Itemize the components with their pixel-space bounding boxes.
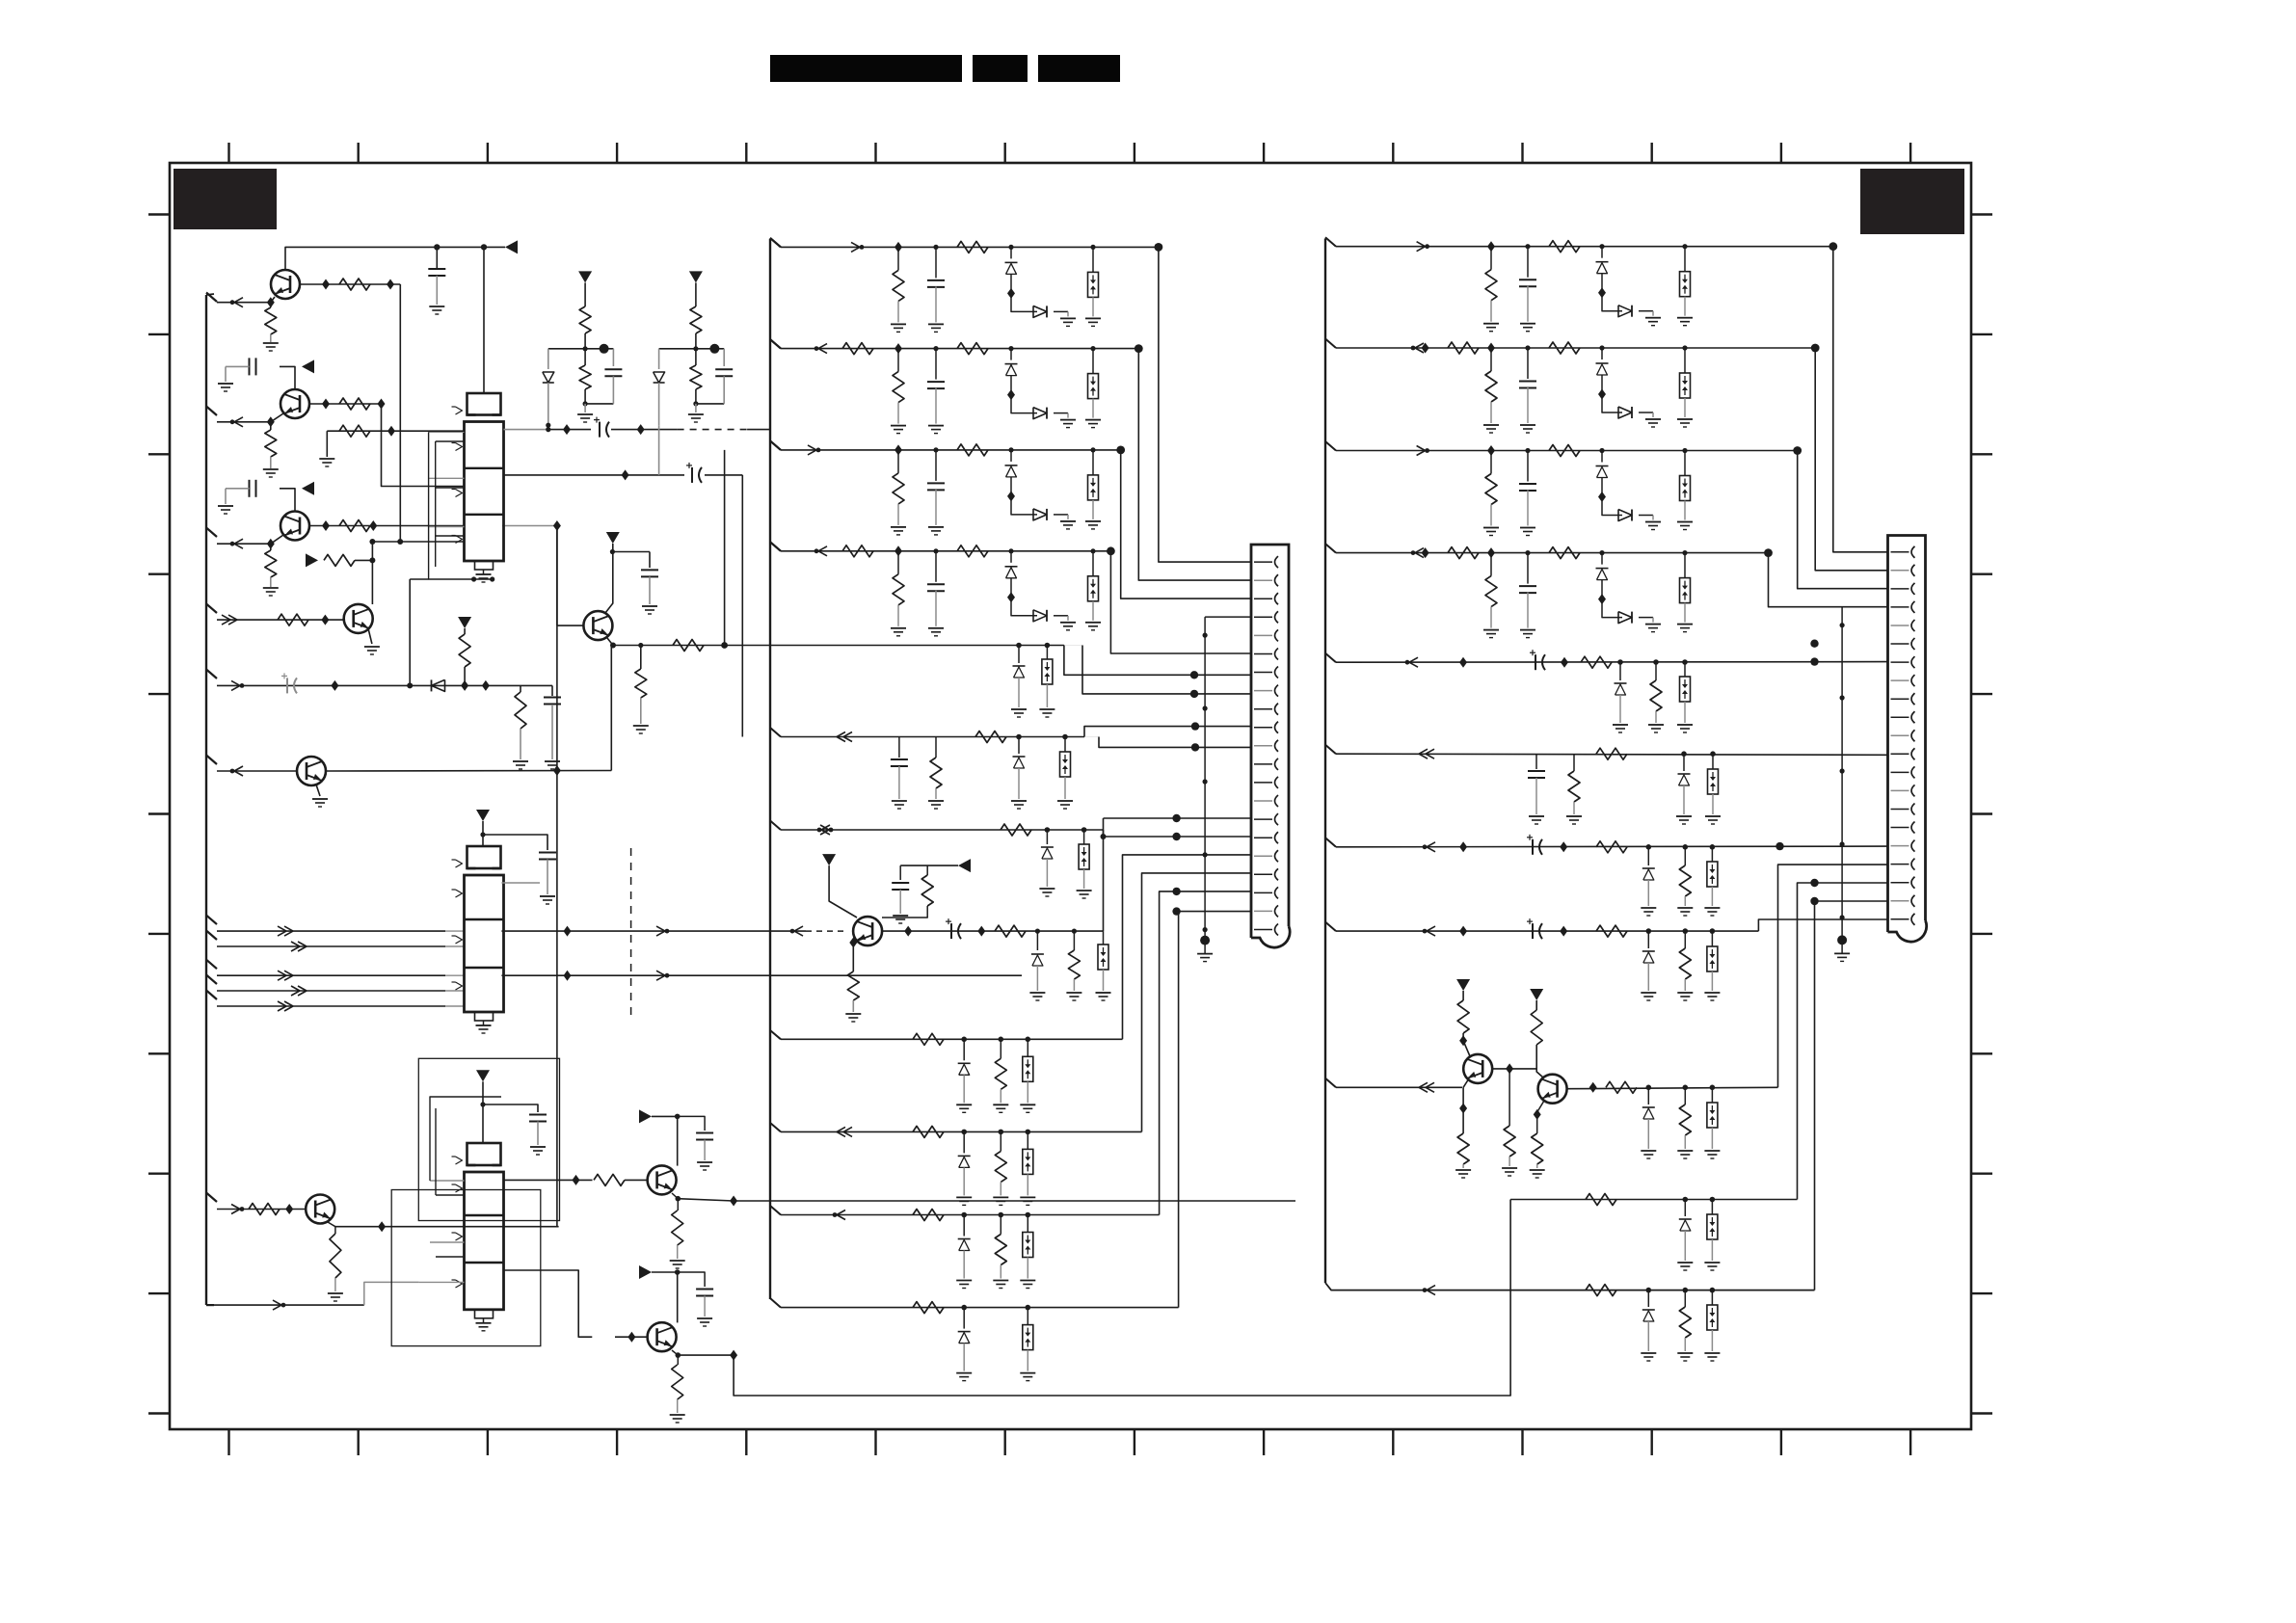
resistor Rm1b bbox=[957, 241, 988, 253]
connector X2 internal ground bus bbox=[1841, 607, 1843, 941]
wire right row 4 drop to connector bbox=[1769, 553, 1888, 607]
title redaction bar 2 bbox=[973, 55, 1028, 82]
wire Q5 output row bbox=[882, 930, 1104, 932]
resistor RA1 bbox=[579, 306, 591, 333]
wire r6 cap leg bbox=[1535, 754, 1537, 769]
wire Q9 emitter resistor bbox=[677, 1355, 679, 1365]
diode Dr5 bbox=[1615, 682, 1627, 684]
resistor Rr7 bbox=[1596, 841, 1627, 853]
wire m11 zener leg bbox=[963, 1308, 965, 1329]
resistor RB2 bbox=[690, 365, 702, 389]
pin 19 bbox=[1891, 882, 1909, 884]
wire right row 8 bbox=[1325, 922, 1336, 932]
diode Dm3a bbox=[1005, 465, 1018, 466]
wire r6 zener leg bbox=[1683, 754, 1685, 771]
wire Q2 base input bbox=[206, 407, 217, 416]
wire cluster A diode leg bbox=[547, 349, 549, 369]
wire IC3 out to Q9 bbox=[504, 1270, 593, 1337]
wire top bias arm bbox=[900, 865, 958, 866]
ground C12 gnd bbox=[530, 1146, 546, 1148]
pin 18 bbox=[1891, 864, 1909, 865]
connector X1 bbox=[1251, 545, 1289, 938]
wire r3 res leg bbox=[1490, 451, 1492, 474]
wire r8 fuse leg bbox=[1711, 931, 1713, 946]
corner label box top-left bbox=[174, 169, 277, 229]
transistor Q9 bbox=[648, 1322, 677, 1351]
wire Q12 output row bbox=[326, 770, 611, 773]
ground m2 gnd4 bbox=[1085, 419, 1101, 421]
protector Fr1 bbox=[1680, 272, 1691, 297]
transistor Q7 bbox=[1538, 1075, 1567, 1104]
power V9 bbox=[639, 1265, 652, 1279]
resistor Rr7b bbox=[1679, 865, 1691, 896]
wire r9 zener leg bbox=[1647, 1087, 1649, 1104]
wire right row 3 bbox=[1325, 441, 1336, 451]
power arrow bbox=[958, 859, 971, 872]
connector X1 internal ground bus bbox=[1204, 617, 1206, 941]
wire V2 cap branch bbox=[612, 551, 650, 553]
wire Q12 emitter ground bbox=[316, 785, 320, 796]
wire resistor leg ground bbox=[326, 431, 328, 457]
IC U2 pin marker bbox=[456, 890, 463, 897]
wire Q2 output drop to IC bbox=[382, 404, 465, 487]
right distribution bus bbox=[1324, 239, 1326, 1284]
ground IC U3 bbox=[476, 1322, 492, 1324]
ground m4 gnd2 bbox=[928, 627, 944, 629]
ground D2 gnd bbox=[1029, 992, 1045, 994]
wire R20 to base bbox=[625, 1179, 648, 1181]
IC U1 body bbox=[465, 422, 504, 562]
wire r3 diode arm bbox=[1602, 497, 1622, 516]
transistor Q2 bbox=[280, 389, 309, 418]
resistor Rr4a bbox=[1485, 576, 1497, 607]
wire r1 diode arm bbox=[1602, 293, 1622, 311]
wire dashed service line bbox=[630, 848, 632, 1020]
diode Dm8 bbox=[958, 1062, 971, 1064]
wire row5 tail bbox=[1019, 645, 1064, 647]
capacitor Cr3 bbox=[1519, 483, 1536, 485]
pin 14 bbox=[1254, 800, 1272, 802]
wire node to Q11 collector bbox=[371, 560, 373, 604]
IC U1 pin marker bbox=[456, 443, 463, 451]
power V3 bbox=[476, 810, 490, 821]
wire Q8 emitter resistor bbox=[334, 1227, 336, 1234]
resistor Rr2 bbox=[1448, 342, 1479, 354]
ground R10 gnd bbox=[513, 760, 528, 762]
ground r10 gnd1 bbox=[1677, 1262, 1693, 1264]
wire cluster B supply bbox=[695, 282, 697, 306]
wire m10 res leg bbox=[1000, 1215, 1001, 1235]
wire cluster A tap to row bbox=[546, 423, 550, 428]
wire Q5 base leg bbox=[853, 938, 861, 943]
IC U1 top section bbox=[467, 393, 501, 415]
wire middle row 3 drop to connector bbox=[1121, 450, 1251, 599]
corner label box top-right bbox=[1860, 169, 1964, 234]
wire row6 cap leg bbox=[898, 737, 900, 758]
resistor Rq6e bbox=[1457, 1133, 1469, 1164]
ground R1 gnd bbox=[263, 342, 279, 344]
wire cluster B bottom tie bbox=[696, 403, 724, 405]
wire IC1 supply drop bbox=[483, 247, 485, 393]
wire r2 fuse leg bbox=[1684, 348, 1686, 373]
wire m11 bbox=[781, 1307, 1179, 1309]
wire m10 fuse leg bbox=[1027, 1215, 1028, 1233]
wire Q10 output run bbox=[734, 1200, 1295, 1202]
ground m9 gnd3 bbox=[1020, 1196, 1035, 1198]
protector Fm10 bbox=[1023, 1233, 1033, 1258]
resistor Rm8 bbox=[913, 1033, 944, 1045]
pin 19 bbox=[1254, 891, 1272, 893]
diode Dm10 bbox=[958, 1238, 971, 1240]
wire m4 diode arm bbox=[1011, 598, 1037, 616]
capacitor C8 bbox=[641, 569, 658, 571]
ground R17 gnd bbox=[1066, 992, 1081, 994]
IC U2 pin marker bbox=[456, 860, 463, 867]
capacitor Cr7 (polarized) bbox=[1532, 839, 1534, 855]
IC U3 pin marker bbox=[456, 1280, 463, 1288]
wire r5 res leg bbox=[1655, 662, 1657, 680]
wire row tail bbox=[465, 684, 521, 686]
ground m2 gnd3 bbox=[1060, 419, 1076, 421]
wire m4 cap leg bbox=[935, 551, 937, 582]
wire Q2 output bbox=[309, 403, 382, 405]
wire r5 zener leg bbox=[1619, 662, 1621, 680]
transistor Q3 bbox=[280, 512, 309, 541]
resistor R8 bbox=[278, 614, 308, 625]
wire r6 fuse leg bbox=[1712, 754, 1714, 769]
resistor Rm9b bbox=[995, 1151, 1006, 1182]
wire middle row 1 bbox=[770, 238, 781, 248]
ground m1 gnd1 bbox=[891, 323, 906, 325]
ground m8 gnd1 bbox=[956, 1104, 972, 1105]
resistor Rm2a bbox=[893, 372, 904, 403]
wire m8 riser bbox=[1123, 855, 1252, 1039]
ground r1 gnd1 bbox=[1483, 323, 1499, 325]
wire m1 cap leg bbox=[935, 247, 937, 278]
ground Q12 gnd bbox=[312, 798, 328, 800]
wire r4 fuse leg bbox=[1684, 553, 1686, 578]
transistor Q5 bbox=[853, 917, 882, 945]
ground r2 gnd4 bbox=[1677, 418, 1693, 420]
ground r5 gnd2 bbox=[1648, 724, 1664, 726]
resistor Rr4b bbox=[1549, 547, 1580, 559]
wire IC1 row from resistor bbox=[327, 430, 464, 432]
IC U2 bottom stub bbox=[475, 1012, 494, 1021]
wire Q1 output drop bbox=[399, 284, 401, 542]
diode Dm2b bbox=[1033, 408, 1047, 419]
IC U2 body bbox=[465, 875, 504, 1012]
diode Dm4a bbox=[1005, 566, 1018, 568]
ground r5 gnd1 bbox=[1613, 724, 1628, 726]
protector Fr8 bbox=[1707, 946, 1718, 971]
ground r11 gnd3 bbox=[1704, 1352, 1720, 1354]
ground m4 gnd3 bbox=[1060, 622, 1076, 624]
capacitor C9 bbox=[539, 852, 556, 854]
wire IC2 supply bbox=[482, 821, 484, 846]
capacitor Cm3 bbox=[927, 482, 945, 484]
ground C5 gnd bbox=[545, 760, 560, 762]
resistor Rr5 bbox=[1581, 656, 1612, 668]
pin 15 bbox=[1891, 809, 1909, 811]
diode Dr2a bbox=[1596, 362, 1609, 364]
transistor Q8 bbox=[306, 1195, 334, 1224]
wire m9 fuse leg bbox=[1027, 1131, 1028, 1149]
protector Fr3 bbox=[1680, 476, 1691, 501]
ground r11 gnd2 bbox=[1677, 1352, 1693, 1354]
wire m1 diode arm bbox=[1011, 293, 1037, 311]
ground r4 gnd4 bbox=[1677, 624, 1693, 625]
wire cluster A cap leg bbox=[612, 349, 614, 366]
pin 13 bbox=[1891, 771, 1909, 773]
resistor Rr1a bbox=[1485, 270, 1497, 301]
diode Dr4a bbox=[1596, 568, 1609, 570]
ground F1 gnd bbox=[1096, 992, 1111, 994]
resistor Rlink bbox=[1504, 1126, 1515, 1157]
wire row B drop bbox=[741, 475, 743, 737]
power V8 bbox=[639, 1109, 652, 1123]
resistor Rm8b bbox=[995, 1058, 1006, 1089]
ground C10 gnd bbox=[893, 915, 908, 917]
ground r9 gnd3 bbox=[1704, 1150, 1720, 1152]
capacitor C11 (polarized) bbox=[950, 923, 952, 939]
ground m11 gnd1 bbox=[956, 1372, 972, 1374]
ground m3 gnd2 bbox=[928, 526, 944, 528]
wire m2 zener leg bbox=[1010, 349, 1012, 360]
ground m1 gnd2 bbox=[928, 323, 944, 325]
power arrow bbox=[505, 240, 518, 253]
diode Dr11 bbox=[1642, 1309, 1655, 1311]
wire right row 1 drop to connector bbox=[1833, 247, 1888, 552]
capacitor CA bbox=[604, 368, 622, 370]
ground r5 gnd3 bbox=[1677, 724, 1693, 726]
ground m7 gnd1 bbox=[1039, 888, 1055, 890]
ground r7 gnd3 bbox=[1704, 907, 1720, 909]
pin 2 bbox=[1254, 579, 1272, 581]
ground m8 gnd2 bbox=[993, 1104, 1008, 1105]
IC U1 pin marker bbox=[456, 407, 463, 414]
wire right row 4 bbox=[1325, 544, 1336, 553]
wire IC1 output row B bbox=[504, 474, 626, 476]
wire RC to ground bbox=[520, 685, 521, 692]
resistor Rm3a bbox=[893, 473, 904, 504]
ground Q7 gnd bbox=[1530, 1169, 1545, 1171]
wire cap to ground bbox=[436, 276, 438, 305]
wire r11 zener leg bbox=[1647, 1290, 1649, 1307]
wire right row 2 drop to connector bbox=[1815, 348, 1887, 571]
wire cluster B rail bbox=[659, 348, 725, 350]
diode Dm11 bbox=[958, 1331, 971, 1333]
pin 6 bbox=[1891, 643, 1909, 645]
wire r1 fuse leg bbox=[1684, 247, 1686, 272]
power VA bbox=[578, 271, 592, 282]
wire r5 fuse leg bbox=[1684, 662, 1686, 677]
ground r8 gnd3 bbox=[1704, 992, 1720, 994]
diode Dm5a bbox=[1013, 665, 1026, 667]
pin 9 bbox=[1891, 698, 1909, 700]
transistor Q11 bbox=[344, 604, 373, 633]
ground r11 gnd1 bbox=[1641, 1352, 1656, 1354]
protector Fm7 bbox=[1079, 844, 1089, 869]
capacitor C1 bbox=[428, 268, 445, 270]
wire Q3 collector node bbox=[280, 489, 295, 512]
protector Fr10 bbox=[1707, 1214, 1718, 1239]
IC U2 top section bbox=[467, 846, 501, 868]
wire row6 to pin10 bbox=[1084, 727, 1251, 737]
protector Fm3 bbox=[1088, 475, 1099, 500]
wire IC3 feed loop bbox=[430, 1097, 501, 1181]
resistor Rr3b bbox=[1549, 445, 1580, 457]
wire r9 fuse leg bbox=[1711, 1087, 1713, 1103]
wire r7 res leg bbox=[1684, 847, 1686, 865]
protector Fr5 bbox=[1680, 677, 1691, 702]
pin 17 bbox=[1891, 845, 1909, 847]
wire emitter resistor leg bbox=[640, 646, 642, 670]
right ruler ticks bbox=[1971, 213, 1992, 215]
module outline box lower bbox=[391, 1190, 541, 1346]
wire r2 res leg bbox=[1490, 348, 1492, 371]
capacitor Cm1 bbox=[927, 279, 945, 281]
wire m9 bbox=[781, 1131, 1142, 1132]
ground R21 gnd bbox=[670, 1260, 685, 1262]
IC U1 pin marker bbox=[456, 490, 463, 497]
resistor Rm6a bbox=[930, 758, 942, 788]
resistor Rr8 bbox=[1596, 925, 1627, 937]
ground m10 gnd2 bbox=[993, 1280, 1008, 1282]
wire bundle continuation row A bbox=[501, 930, 777, 932]
resistor Rr1b bbox=[1549, 241, 1580, 253]
wire m9 riser bbox=[1142, 873, 1252, 1132]
pin 12 bbox=[1891, 753, 1909, 755]
wire cluster feed drop bbox=[724, 450, 726, 646]
capacitor C6 (polarized) bbox=[599, 422, 601, 438]
protector Fr6 bbox=[1708, 769, 1719, 794]
wire r10 fuse leg bbox=[1711, 1200, 1713, 1215]
capacitor C12 bbox=[529, 1114, 547, 1116]
pin 8 bbox=[1891, 679, 1909, 681]
ground r4 gnd2 bbox=[1520, 629, 1535, 631]
resistor Rr2a bbox=[1485, 371, 1497, 402]
wire m8 zener leg bbox=[963, 1039, 965, 1060]
wire r7 zener leg bbox=[1647, 847, 1649, 865]
capacitor C2 bbox=[249, 358, 251, 375]
resistor R12 bbox=[635, 669, 647, 698]
wire cluster A res leg bbox=[584, 349, 586, 365]
resistor R16 bbox=[995, 925, 1026, 937]
wire right row 1 bbox=[1325, 237, 1336, 247]
wire r4 diode arm bbox=[1602, 599, 1622, 618]
pin 11 bbox=[1254, 745, 1272, 747]
wire Q1 collector to top rail bbox=[285, 247, 505, 271]
resistor R6 bbox=[339, 520, 370, 532]
resistor Rr11b bbox=[1679, 1307, 1691, 1338]
wire m3 res leg bbox=[897, 450, 899, 473]
wire long bottom run bbox=[734, 1200, 1510, 1397]
resistor R15 bbox=[921, 875, 933, 906]
ground m6 gnd3 bbox=[1011, 800, 1027, 802]
wire r11 riser to pin20 bbox=[1815, 901, 1888, 1290]
wire bias cap bbox=[899, 865, 901, 880]
wire Q2 emitter resistor bbox=[270, 422, 272, 430]
wire middle row 1 drop to connector bbox=[1159, 247, 1251, 562]
protector Fm5 bbox=[1042, 659, 1053, 684]
pin 21 bbox=[1254, 929, 1272, 931]
wire right pair input bbox=[1325, 1078, 1336, 1088]
ground r3 gnd3 bbox=[1645, 521, 1661, 523]
ground m3 gnd4 bbox=[1085, 520, 1101, 522]
middle distribution bus bbox=[769, 239, 771, 1299]
power arrow bbox=[302, 482, 314, 495]
power V6 bbox=[1530, 989, 1543, 1000]
ground R12 gnd bbox=[633, 725, 649, 727]
ground X2 gnd bbox=[1834, 952, 1850, 954]
wire m3 diode arm bbox=[1011, 496, 1037, 515]
wire Q10 emitter bbox=[672, 1193, 678, 1199]
ground r3 gnd2 bbox=[1520, 527, 1535, 529]
pin 6 bbox=[1254, 653, 1272, 655]
resistor Rm4b bbox=[957, 545, 988, 557]
pin 20 bbox=[1254, 910, 1272, 912]
wire row6 res leg bbox=[935, 737, 937, 758]
ground IC U2 bbox=[476, 1024, 492, 1026]
wire middle row 10 feed bbox=[770, 1206, 781, 1215]
ground R19 gnd bbox=[328, 1292, 343, 1294]
wire Q3 row drop to Q4/Q8 bbox=[556, 526, 558, 1227]
wire m9 res leg bbox=[1000, 1131, 1001, 1151]
resistor R9 bbox=[459, 634, 470, 667]
wire IC2 supply cap bbox=[483, 835, 547, 850]
wire r3 fuse leg bbox=[1684, 451, 1686, 476]
resistor Rm1a bbox=[893, 270, 904, 301]
protector Fr7 bbox=[1707, 862, 1718, 887]
resistor Rr6 bbox=[1568, 771, 1580, 802]
wire m1 fuse leg bbox=[1092, 247, 1094, 272]
wire m1 res leg bbox=[897, 247, 899, 270]
title redaction bar 3 bbox=[1038, 55, 1120, 82]
diode Dr3b bbox=[1618, 510, 1632, 521]
ground Q6 gnd bbox=[1455, 1169, 1471, 1171]
pin 16 bbox=[1891, 827, 1909, 829]
ground m2 gnd2 bbox=[928, 425, 944, 427]
IC U3 pin marker bbox=[456, 1157, 463, 1164]
wire m8 bbox=[781, 1038, 1123, 1040]
wire m3 zener leg bbox=[1010, 450, 1012, 462]
pin 11 bbox=[1891, 734, 1909, 736]
power V2 bbox=[606, 532, 620, 544]
wire IC1 left stubs bbox=[429, 431, 465, 433]
wire m9 zener leg bbox=[963, 1131, 965, 1153]
wire Q7 output row bbox=[1567, 1087, 1777, 1088]
wire right row 2 bbox=[1325, 339, 1336, 349]
ground C8 gnd bbox=[642, 605, 657, 607]
resistor Rm2b bbox=[957, 343, 988, 355]
wire middle row 4 bbox=[770, 542, 781, 551]
wire riser to Q4 emitter bbox=[610, 646, 612, 771]
resistor Rq6 bbox=[1457, 1000, 1469, 1033]
wire arrow-resistor to node bbox=[355, 559, 372, 561]
power V5 bbox=[1456, 979, 1470, 991]
diode Dm1b bbox=[1033, 306, 1047, 317]
wire m11 riser bbox=[1179, 912, 1251, 1308]
wire r11 res leg bbox=[1684, 1290, 1686, 1307]
power V7 bbox=[476, 1070, 490, 1081]
pin 18 bbox=[1254, 873, 1272, 875]
diode Dr7 bbox=[1642, 867, 1655, 869]
ground r6 gnd1 bbox=[1529, 815, 1544, 817]
resistor Rm11 bbox=[913, 1302, 944, 1314]
wire middle row 7 bbox=[770, 821, 781, 831]
wire r6 res leg bbox=[1573, 754, 1575, 771]
diode Dm3b bbox=[1033, 509, 1047, 520]
